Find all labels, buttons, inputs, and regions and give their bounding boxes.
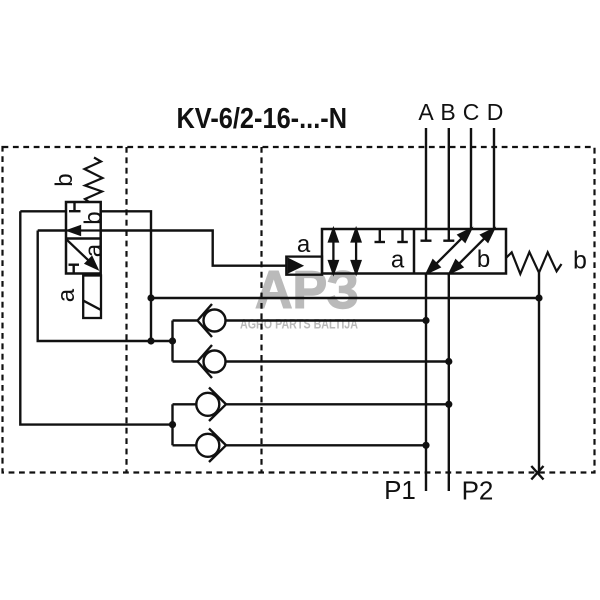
wire CV2 out to P2 bbox=[226, 360, 449, 362]
wire CV3 out to P2 bbox=[226, 403, 449, 405]
pilot actuator box bbox=[286, 257, 322, 275]
drain plug X mark bbox=[531, 466, 543, 480]
svg-text:a: a bbox=[297, 231, 311, 258]
svg-text:b: b bbox=[573, 247, 587, 275]
wire P1 vertical bbox=[425, 274, 427, 492]
junction dot upper bracket bbox=[169, 337, 176, 344]
main valve spring bbox=[506, 252, 562, 274]
junction dot CV1-P1 bbox=[422, 317, 429, 324]
junction dot CV2-P2 bbox=[445, 358, 452, 365]
wire D line bbox=[493, 128, 495, 230]
wire W2 left inner bbox=[38, 231, 173, 342]
svg-text:b: b bbox=[477, 246, 490, 273]
pilot valve body bbox=[66, 202, 101, 274]
check valve CV4 ball bbox=[196, 434, 219, 457]
svg-text:KV-6/2-16-...-N: KV-6/2-16-...-N bbox=[177, 103, 348, 135]
dashed divider 2 bbox=[260, 147, 262, 473]
pilot diagonal arrow (cell a) bbox=[66, 239, 97, 268]
check valve CV3 feed bbox=[173, 403, 197, 405]
wire A line bbox=[425, 128, 427, 241]
wire pilot arrow line left part bbox=[38, 229, 66, 231]
solenoid slash bbox=[83, 301, 101, 310]
dashed enclosure frame bbox=[3, 147, 595, 473]
svg-text:b: b bbox=[80, 211, 107, 224]
junction dot lower bracket bbox=[169, 421, 176, 428]
check valve CV4 seat bbox=[209, 429, 226, 463]
main valve blocked port T (B) bbox=[443, 239, 454, 241]
wire CV1 out to P1 bbox=[226, 319, 427, 321]
check valve CV3 ball bbox=[196, 393, 219, 416]
pilot valve blocked port T (cell b) bbox=[73, 202, 75, 211]
dashed divider 1 bbox=[125, 147, 127, 473]
junction dot CV3-P2 bbox=[445, 401, 452, 408]
wire C line bbox=[470, 128, 472, 230]
solenoid box bbox=[83, 276, 101, 319]
svg-text:a: a bbox=[81, 243, 108, 257]
junction dot upper feed left bbox=[147, 337, 154, 344]
main valve blocked port T (A) bbox=[421, 239, 432, 241]
main valve body bbox=[322, 229, 506, 274]
junction dot CV4-P1 bbox=[422, 442, 429, 449]
pilot valve spring bbox=[85, 158, 103, 203]
check valve CV1 feed bbox=[173, 319, 199, 321]
svg-text:C: C bbox=[463, 99, 480, 125]
wire CV4 out to P1 bbox=[226, 444, 426, 446]
check valve bracket lower bbox=[171, 404, 173, 445]
svg-text:b: b bbox=[51, 173, 78, 186]
main valve blocked port T stub 1 (box a) bbox=[379, 229, 381, 242]
check valve CV1 ball bbox=[204, 310, 226, 332]
wire drain header bbox=[151, 297, 539, 299]
svg-text:AGRO PARTS BALTIJA: AGRO PARTS BALTIJA bbox=[240, 317, 358, 332]
main valve blocked port T stub 2 (box a) bbox=[401, 229, 403, 242]
svg-text:B: B bbox=[440, 99, 455, 125]
pilot valve blocked port T (cell a) bbox=[69, 264, 80, 266]
wire pilot top-right port to drain node bbox=[101, 211, 151, 341]
check valve CV1 seat bbox=[198, 304, 213, 337]
svg-text:АРЗ: АРЗ bbox=[255, 261, 359, 320]
wire P2 vertical bbox=[448, 274, 450, 492]
junction dot pilot drain top bbox=[147, 294, 154, 301]
main valve diagonal arrow C-P1 bbox=[427, 229, 471, 273]
main valve flow arrow vertical 2 bbox=[352, 229, 361, 273]
check valve CV2 ball bbox=[204, 351, 226, 373]
wire B line bbox=[448, 128, 450, 241]
svg-text:P1: P1 bbox=[384, 475, 416, 505]
main valve diagonal arrow D-P2 bbox=[450, 229, 494, 273]
pilot actuator triangle bbox=[288, 258, 303, 273]
check valve CV2 seat bbox=[198, 345, 213, 378]
wire pilot top-left port bbox=[20, 210, 66, 212]
check valve CV3 seat bbox=[209, 388, 226, 422]
check valve CV4 feed bbox=[173, 444, 197, 446]
wire pilot to main valve bbox=[101, 231, 287, 266]
pilot arrow line with left arrowhead bbox=[66, 226, 101, 234]
check valve bracket upper bbox=[171, 321, 173, 362]
svg-text:a: a bbox=[391, 247, 405, 274]
wire W1 left outer bbox=[20, 211, 172, 424]
svg-text:D: D bbox=[487, 99, 504, 125]
check valve CV2 feed bbox=[173, 360, 199, 362]
watermark APB logo bbox=[240, 261, 359, 332]
junction dot drain right bbox=[535, 294, 542, 301]
wire drain vertical bbox=[538, 273, 540, 471]
main valve flow arrow vertical 1 bbox=[329, 229, 338, 273]
svg-text:A: A bbox=[418, 99, 434, 125]
main valve center divider bbox=[413, 229, 416, 274]
svg-text:a: a bbox=[53, 288, 80, 302]
svg-text:P2: P2 bbox=[462, 476, 494, 506]
pilot valve cell divider bbox=[66, 237, 101, 240]
